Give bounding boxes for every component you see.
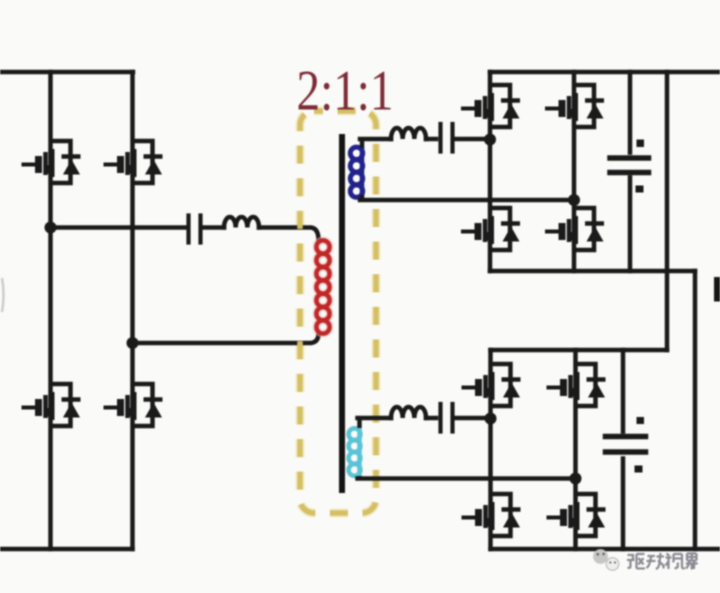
svg-text:2:1:1: 2:1:1 — [297, 60, 394, 123]
